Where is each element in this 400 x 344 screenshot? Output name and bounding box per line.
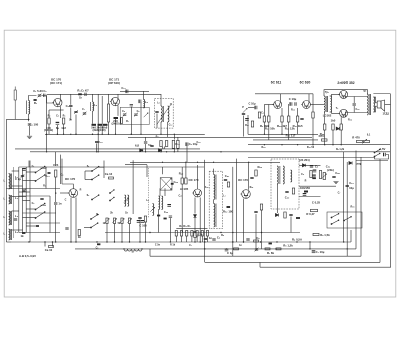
node bus162 x185.9: [185, 162, 186, 163]
wire T3 base row: [264, 104, 273, 106]
wire jog y211: [12, 210, 19, 212]
RD coil b: [283, 166, 284, 184]
electrolytic C19 input: [255, 106, 257, 110]
wire R8 up: [108, 94, 110, 104]
svg-text:C₁₀: C₁₀: [98, 140, 103, 144]
wire L4 top: [92, 94, 94, 102]
component dark L15 a: [157, 215, 160, 217]
switch contact S1a: [35, 166, 45, 173]
IF2 core upper: [215, 175, 217, 200]
wire battery loop: [375, 155, 389, 160]
svg-text:(140Ω): (140Ω): [44, 128, 53, 132]
discriminator box diagonal b: [161, 178, 172, 190]
capacitor dark bus97: [97, 243, 100, 245]
wire coil bottom down: [28, 114, 30, 121]
wire T9 down c: [194, 238, 196, 243]
svg-text:R₁₁: R₁₁: [156, 136, 160, 139]
bus y140 right: [253, 139, 318, 141]
svg-text:R: R: [80, 189, 82, 192]
wire T9 down b: [194, 218, 196, 232]
wire x174 down: [173, 149, 175, 152]
resistor R4 top rail: [78, 93, 82, 95]
node bus134 x70.8: [70, 134, 71, 135]
svg-text:NTC: NTC: [319, 134, 325, 138]
pot row drop 4: [129, 224, 131, 243]
speaker: [377, 100, 384, 111]
trimmer capacitor C7: [74, 111, 77, 112]
wire IF2 in: [213, 169, 215, 175]
wire R20 down: [312, 118, 314, 145]
svg-text:C 10µ: C 10µ: [289, 97, 297, 101]
resistor row2: [234, 248, 239, 250]
resistor row R36: [180, 231, 182, 237]
resistor R31: [78, 230, 80, 236]
node bus242 x55.7: [55, 241, 56, 242]
resistor R43: [255, 170, 257, 176]
transistor T5 output upper: [338, 90, 347, 98]
svg-text:L₇: L₇: [223, 195, 225, 198]
node bus242 x97.0: [96, 241, 97, 242]
node bus134 x57.4: [57, 134, 58, 135]
wire x104 vert: [103, 161, 105, 179]
node bus151 x96.7: [96, 151, 97, 152]
svg-text:1n: 1n: [209, 236, 213, 240]
IF2 core lower: [215, 204, 217, 228]
node bus144 x264.4: [264, 144, 265, 145]
svg-text:R₆₅: R₆₅: [351, 206, 355, 209]
wire x347 vert: [346, 162, 348, 256]
driver transformer core 1: [326, 96, 328, 112]
electrolytic C38: [313, 170, 317, 172]
wire box down x141: [140, 102, 142, 134]
trimmer capacitor C9 arrow: [83, 112, 87, 116]
wire T6 collector to transformer: [345, 113, 367, 117]
resistor R24: [340, 124, 342, 130]
resistor row R35: [175, 231, 177, 237]
wire box down x131: [130, 107, 132, 135]
svg-text:R₇: R₇: [126, 120, 129, 123]
wire R16 down: [268, 122, 270, 140]
resistor R28: [109, 177, 114, 179]
resistor R11: [160, 141, 162, 147]
resistor R10 in box: [121, 118, 123, 124]
diode D1: [140, 149, 143, 152]
switch contact S6a: [109, 189, 114, 193]
wire T9 c down: [199, 198, 201, 243]
resistor row drop 41: [207, 236, 209, 242]
wire R15 up: [263, 105, 265, 117]
diode D6 below T9: [193, 215, 196, 218]
electrolytic C mid: [186, 142, 188, 146]
svg-text:R₈: R₈: [221, 234, 224, 237]
band coil L12: [9, 211, 10, 225]
node bus162 x162.5: [162, 162, 163, 163]
wire C23 down: [353, 106, 355, 113]
wire x133 down: [132, 160, 134, 214]
trimmer capacitor C1: [38, 95, 41, 96]
wire xfmr top: [344, 90, 368, 94]
node bus232 x261.5: [261, 232, 262, 233]
electrolytic big: [303, 193, 307, 195]
resistor row drop 35: [175, 236, 177, 242]
wire R18 up: [288, 104, 290, 116]
L12 arrow: [124, 198, 128, 202]
svg-text:C 5n: C 5n: [155, 244, 161, 247]
resistor row R41: [206, 231, 208, 237]
wire jog y200: [23, 200, 31, 202]
resistor R6: [98, 124, 103, 126]
wire R24 up: [340, 117, 342, 124]
wire R17 up: [281, 108, 283, 116]
wire RD out: [290, 217, 292, 233]
wire sw2 jog: [26, 208, 35, 210]
capacitor C28 dark: [167, 204, 171, 206]
transformer L15 b: [162, 196, 163, 210]
svg-text:C₄₅: C₄₅: [179, 195, 183, 198]
band coil core 13b: [11, 229, 13, 240]
pot R50 vol: [311, 209, 318, 211]
electrolytic input c: [245, 118, 249, 120]
wire antenna to left rail: [6, 118, 29, 120]
bus bottom y249: [75, 248, 356, 250]
IF2 coil upper: [214, 175, 215, 200]
resistor R47 dark: [296, 217, 300, 219]
wire sw2 out: [41, 204, 47, 206]
wire y196 left: [19, 195, 50, 197]
transistor T1 OC170: [52, 98, 62, 106]
svg-text:C₅₅: C₅₅: [335, 171, 340, 175]
discriminator box: [160, 178, 172, 191]
node bus242 x260.5: [260, 241, 261, 242]
wire left col join: [6, 241, 11, 243]
resistor R14 input: [258, 112, 260, 118]
wire x147 down: [146, 165, 148, 177]
main bus y134 left: [45, 133, 205, 135]
resistor R15: [263, 116, 265, 122]
capacitor busr c: [204, 238, 207, 239]
wire y196 cluster: [299, 196, 321, 198]
wire jog y230: [12, 229, 23, 231]
L14 arrow: [150, 207, 154, 211]
wire x145 down: [145, 222, 147, 242]
top rail y94: [47, 93, 155, 95]
pot arrow R49b: [322, 174, 326, 178]
wire x236 vertical long: [236, 159, 238, 242]
electrolytic C24 battery: [383, 153, 385, 157]
resistor row2b: [265, 248, 270, 250]
node bus232 x150.0: [149, 232, 150, 233]
node bus242 x52.5: [52, 241, 53, 242]
svg-text:C₁₂: C₁₂: [169, 124, 173, 127]
wire input coupling: [248, 107, 254, 109]
wire x46 vertical: [46, 96, 48, 152]
svg-text:1n: 1n: [58, 202, 62, 206]
node bus151 x161.0: [160, 151, 161, 152]
switch contact S5b: [90, 223, 98, 228]
wire corner x361: [360, 157, 362, 256]
wire right edge x391: [390, 94, 392, 268]
capacitor C17: [155, 111, 158, 112]
switch contact S2b: [35, 212, 45, 219]
node bus249 x124.0: [123, 248, 124, 249]
IF transformer box 2: [209, 171, 222, 229]
transformer L12 b: [128, 195, 129, 206]
node bus151 x46.6: [46, 151, 47, 152]
wire sw1 jog: [26, 171, 35, 173]
switch S main b: [374, 153, 380, 157]
main bus y137: [128, 136, 312, 138]
wire R23 down: [332, 130, 334, 145]
wire C18 down: [145, 144, 147, 152]
wire left edge vertical: [5, 119, 7, 242]
resistor R9 below T2: [114, 117, 119, 119]
svg-text:R₈ 1,2k: R₈ 1,2k: [283, 244, 293, 248]
output transformer core 2: [370, 94, 372, 115]
resistor R16: [268, 116, 270, 122]
svg-text:R₅₁: R₅₁: [250, 186, 254, 189]
wire top to osc box: [120, 90, 149, 92]
wire RD down: [277, 184, 279, 213]
IF2 link: [213, 200, 215, 204]
resistor row2c: [276, 248, 281, 250]
electrolytic row b: [141, 220, 145, 222]
electrolytic C38b: [312, 175, 316, 177]
svg-text:R₂: R₂: [48, 115, 51, 118]
capacitor C11 dark: [126, 90, 128, 94]
transistor T7 OC170 FM: [68, 189, 78, 198]
svg-text:C₉: C₉: [137, 110, 140, 113]
resistor R12: [165, 141, 167, 147]
wire C5 down: [56, 125, 58, 134]
switch contact S3b: [91, 175, 99, 180]
svg-text:R₂₁: R₂₁: [245, 124, 249, 127]
node bus242 a: [204, 241, 205, 242]
wire T7 down c: [75, 198, 77, 243]
wire T1 emitter down: [60, 106, 62, 118]
diode near battery line: [349, 161, 352, 164]
svg-text:C₈ K7: C₈ K7: [81, 89, 89, 93]
capacitor C39: [332, 176, 335, 177]
trimmer capacitor C12 arrow: [123, 113, 127, 117]
coil L4 core: [90, 102, 92, 111]
capacitor C2: [44, 94, 45, 97]
svg-text:R₅ R₆ R₇: R₅ R₆ R₇: [179, 224, 190, 228]
wire y165 cluster: [299, 164, 321, 166]
node bus242 x114.5: [114, 241, 115, 242]
node bus242 x107.0: [106, 241, 107, 242]
wire sw1 out: [41, 167, 47, 168]
wire R22 up: [324, 112, 326, 124]
svg-text:C₂: C₂: [261, 112, 264, 115]
trimmer capacitor C13 arrow: [134, 113, 138, 117]
node bus144 x324.7: [324, 144, 325, 145]
svg-text:R₉ 1,2k: R₉ 1,2k: [336, 148, 345, 151]
wire corner x356: [355, 151, 357, 249]
resistor R33: [185, 178, 187, 184]
wire C7 down: [75, 115, 77, 135]
electrolytic C27: [65, 228, 68, 229]
wire bus small db: [52, 242, 54, 247]
wire left v2: [22, 168, 24, 233]
pot row arrow 1: [105, 219, 109, 223]
svg-text:R₃₁ 56: R₃₁ 56: [307, 146, 315, 149]
node bus242 x343.7: [343, 241, 344, 242]
wire x55 vert: [55, 177, 57, 202]
node bus162 x213.6: [213, 162, 214, 163]
node bus249 x347.2: [347, 248, 348, 249]
node bus242 x29.0: [28, 241, 29, 242]
svg-text:6C 630: 6C 630: [300, 81, 311, 85]
resistor R25 pot: [357, 140, 363, 142]
wire speaker feedback: [385, 104, 391, 106]
resistor R49b pot: [323, 173, 325, 180]
svg-text:1k0: 1k0: [331, 119, 336, 123]
node bus134 x141.0: [140, 134, 141, 135]
node bus242 x204.7: [204, 241, 205, 242]
svg-text:100/150: 100/150: [300, 186, 311, 190]
resistor row drop 37: [186, 236, 188, 242]
band coil L13: [9, 229, 10, 240]
node bus162 x197.5: [197, 162, 198, 163]
electrolytic C5: [56, 122, 60, 124]
wire x46 bl: [45, 167, 47, 189]
resistor R44: [260, 204, 262, 210]
resistor R27 col: [55, 170, 57, 177]
svg-text:C₂: C₂: [32, 202, 35, 205]
wire C23 up: [353, 97, 355, 104]
node bus242 x170.4: [170, 241, 171, 242]
wire corner x351: [350, 230, 352, 242]
resistor R20 right: [312, 112, 314, 118]
wire x55 down: [55, 205, 57, 242]
wire sw5 in: [84, 227, 91, 229]
wire y213 left: [23, 212, 56, 214]
svg-text:A-B 0,5–0,9V: A-B 0,5–0,9V: [19, 254, 36, 258]
driver transformer primary: [324, 96, 325, 112]
wire C17 down: [156, 114, 158, 129]
wire x140 down: [139, 220, 141, 243]
svg-text:R₄₆: R₄₆: [205, 186, 209, 189]
wire feed x605: [60, 155, 62, 184]
resistor R13 tall: [172, 140, 174, 148]
discriminator box diagonal a: [161, 178, 172, 190]
svg-text:C₇: C₇: [82, 108, 85, 111]
svg-text:C₃₃: C₃₃: [197, 141, 201, 144]
svg-text:L: L: [3, 215, 5, 219]
wire xfmr to right edge: [373, 93, 390, 95]
svg-text:C₁: C₁: [32, 165, 35, 168]
resistor R2: [48, 118, 50, 124]
band coil L10: [9, 174, 10, 190]
oscillator coil L5: [143, 99, 144, 108]
diode D5: [302, 164, 305, 167]
transistor T8 OC170: [241, 190, 251, 199]
wire L4 down: [92, 111, 94, 124]
pot row arrow 3: [120, 219, 124, 223]
svg-text:C₆₆: C₆₆: [164, 211, 168, 214]
svg-text:C 100: C 100: [139, 224, 147, 228]
transistor T4 6C630: [301, 101, 310, 109]
wire feed x62: [61, 159, 63, 184]
wire C6 down: [70, 108, 72, 121]
electrolytic row a: [137, 220, 141, 222]
svg-text:C₃₀: C₃₀: [356, 108, 360, 111]
node bus232 x195.0: [194, 232, 195, 233]
node bus junction d: [57, 134, 58, 135]
capacitor C33: [250, 177, 253, 178]
svg-text:L₆: L₆: [146, 199, 149, 202]
node bus242 c: [243, 241, 244, 242]
capacitor C15: [130, 105, 133, 106]
wire sw3b in: [85, 179, 92, 181]
node bus134 x108.5: [108, 134, 109, 135]
bus bottom y256: [150, 255, 361, 257]
wire x248 up: [247, 115, 249, 134]
component dark 100150: [304, 191, 308, 193]
wire T1 collector up: [60, 94, 62, 99]
resistor R49: [319, 171, 321, 179]
capacitor C35: [285, 191, 288, 192]
svg-text:R₂₃: R₂₃: [291, 109, 295, 112]
svg-text:R: R: [305, 180, 307, 183]
transistor T6 output lower: [338, 109, 347, 117]
wire R5R6 vertical x98: [97, 94, 99, 152]
wire x261 down: [261, 210, 263, 249]
bus y145 right: [248, 144, 390, 146]
resistor R32: [181, 178, 183, 184]
node bus249 x204.7: [204, 248, 205, 249]
resistor R48: [310, 171, 312, 178]
band coil core 11a: [10, 195, 12, 204]
electrolytic row2 a: [225, 249, 229, 251]
trimmer capacitor C12: [123, 114, 126, 115]
resistor R5: [92, 124, 97, 126]
node bus242 x310.0: [309, 241, 310, 242]
main bus y134 right: [248, 133, 318, 135]
ground below C4: [27, 136, 32, 138]
svg-text:L₇: L₇: [132, 250, 135, 254]
wire x260 drop: [259, 262, 261, 267]
capacitor C4: [28, 124, 31, 125]
svg-text:R₂₈: R₂₈: [262, 146, 266, 149]
switch contact S4a: [91, 195, 99, 200]
resistor R51 row: [313, 233, 319, 235]
tone switch arm b: [331, 220, 339, 225]
wire disc up: [162, 167, 164, 174]
wire T7 down e: [70, 198, 72, 243]
svg-text:R₂₂ 10k: R₂₂ 10k: [265, 126, 275, 130]
band coil core 10a: [10, 174, 12, 190]
resistor R1 ant: [34, 99, 37, 101]
svg-text:C₇ 10µ: C₇ 10µ: [316, 250, 325, 254]
resistor row drop 39: [196, 236, 198, 242]
wire x85 vert: [84, 171, 86, 180]
svg-text:C₇: C₇: [338, 192, 341, 195]
RD coil a: [277, 166, 278, 184]
resistor bus small: [49, 246, 54, 248]
node bus242 x140.0: [139, 241, 140, 242]
wire L15 down: [158, 210, 160, 233]
wire R19 down: [297, 122, 299, 134]
wire R3 down: [63, 124, 65, 134]
wire R13b down: [177, 148, 179, 152]
wire jog y192: [19, 191, 30, 193]
wire jog y186: [12, 185, 23, 187]
switch contact S3a: [91, 166, 99, 171]
resistor R19: [296, 116, 298, 122]
transistor T3 6C611: [273, 101, 282, 109]
ratio detector box: [271, 159, 299, 209]
